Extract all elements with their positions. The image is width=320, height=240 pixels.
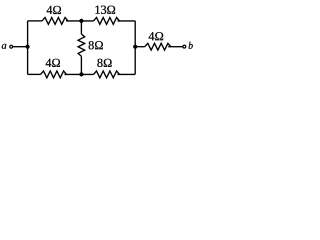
svg-text:4Ω: 4Ω [148,29,163,43]
wire: top rail left segment [28,20,42,22]
svg-text:8Ω: 8Ω [97,56,112,70]
wire: R6 to terminal b [168,46,182,48]
node: junction dot bottom (vertical branch) [79,72,83,76]
node: junction dot right (output node) [133,45,137,49]
svg-text:a: a [1,41,6,52]
terminal b circle [183,45,186,48]
wire: middle branch bottom [80,56,82,74]
wire: right vertical rail [134,21,136,75]
svg-text:8Ω: 8Ω [88,38,103,52]
wire: bottom rail left segment [28,73,41,75]
svg-text:4Ω: 4Ω [46,3,61,17]
wire: top rail middle segment [66,20,94,22]
resistor R2 13ohm (top-right) [94,18,120,25]
resistor R4 8ohm (bottom-right) [94,71,120,78]
wire: bottom rail middle segment [65,73,94,75]
svg-text:13Ω: 13Ω [94,3,115,17]
svg-text:b: b [188,41,193,52]
wire: terminal a lead [13,46,28,48]
node: junction dot top (vertical branch) [79,19,83,23]
wire: left vertical rail [27,21,29,75]
wire: bottom rail right segment [118,73,136,75]
resistor R3 4ohm (bottom-left) [41,71,67,78]
node: junction dot left (terminal a) [26,45,30,49]
resistor R5 8ohm (middle vertical) [78,34,85,56]
resistor R1 4ohm (top-left) [42,18,68,25]
svg-text:4Ω: 4Ω [45,56,60,70]
terminal a circle [10,45,13,48]
wire: middle branch top [80,21,82,34]
resistor R6 4ohm (right) [145,43,171,50]
wire: top rail right segment [118,20,136,22]
wire: output node to R6 [135,46,145,48]
